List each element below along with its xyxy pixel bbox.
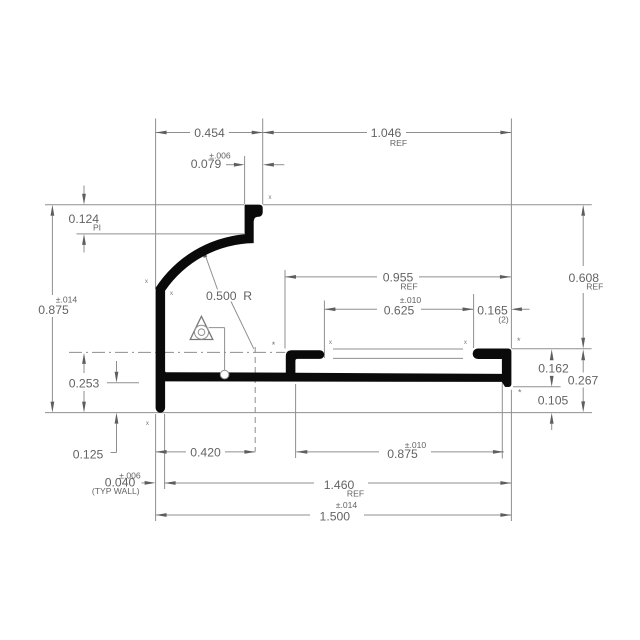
base bottom extension line left — [107, 382, 139, 384]
dimension 0.608 REF right — [582, 216, 584, 266]
bottom plane long extension line — [45, 412, 592, 414]
extension line profile right edge upper — [510, 119, 512, 349]
dimension 0.625 — [323, 301, 325, 359]
dimension 0.955 REF — [284, 270, 286, 349]
svg-text:REF: REF — [400, 282, 417, 292]
svg-text:x: x — [464, 339, 468, 346]
lower extension lines — [155, 414, 157, 521]
top surface extension line left — [45, 204, 244, 206]
dimension 0.267 — [582, 360, 584, 372]
svg-text:*: * — [517, 336, 521, 346]
dimension 0.875 bottom — [296, 451, 379, 453]
svg-text:0.420: 0.420 — [190, 446, 221, 460]
svg-text:PI: PI — [93, 223, 101, 233]
dimension 0.875 left — [51, 216, 53, 295]
dimension 1.460 REF — [165, 482, 314, 484]
datum leader — [209, 327, 225, 329]
dimension 0.420 — [156, 451, 186, 453]
svg-text:0.105: 0.105 — [538, 394, 569, 408]
svg-text:x: x — [170, 290, 174, 297]
dimension 0.125 — [116, 361, 118, 372]
centerline dash-dot — [69, 351, 285, 353]
svg-text:0.079: 0.079 — [191, 157, 222, 171]
svg-text:0.125: 0.125 — [73, 448, 104, 462]
datum triangle symbol — [190, 316, 213, 339]
foot-bottom reference line right — [513, 386, 561, 388]
svg-text:0.454: 0.454 — [194, 126, 225, 140]
hook-top reference line right — [511, 348, 591, 350]
top surface extension line right — [263, 204, 592, 206]
top extension line at knob right edge — [262, 119, 264, 205]
svg-text:REF: REF — [586, 282, 603, 292]
svg-text:REF: REF — [347, 489, 364, 499]
svg-text:±.014: ±.014 — [336, 500, 358, 510]
svg-text:0.875: 0.875 — [387, 447, 418, 461]
svg-text:1.500: 1.500 — [320, 510, 351, 524]
radius label 0.500 R with leaders — [205, 255, 218, 290]
top extension line at profile left edge — [155, 119, 157, 290]
thin ledge line upper (between step and hook) — [333, 348, 463, 350]
svg-text:x: x — [268, 194, 272, 201]
dimension 1.046 REF line — [263, 132, 367, 134]
dimension 0.454 line — [156, 132, 190, 134]
dimension 0.165 (2) — [522, 308, 530, 310]
svg-text:x: x — [146, 420, 150, 427]
thin ledge line lower (between step and hook) — [333, 357, 463, 359]
vertical dashed line through radius center — [254, 347, 256, 451]
extension line stub left wall — [244, 156, 246, 204]
svg-text:0.625: 0.625 — [384, 304, 415, 318]
svg-text:0.267: 0.267 — [568, 374, 599, 388]
svg-text:0.500 R: 0.500 R — [206, 289, 252, 303]
0.124 reference line (flat top of curve) — [77, 233, 245, 235]
svg-text:(TYP WALL): (TYP WALL) — [92, 486, 140, 496]
dimension 0.079 — [226, 164, 234, 166]
svg-text:(2): (2) — [498, 315, 509, 325]
svg-text:*: * — [518, 388, 522, 398]
svg-text:REF: REF — [390, 138, 407, 148]
dimension 0.253 — [83, 364, 85, 373]
dimension 1.500 — [156, 514, 310, 516]
dimension 0.040 TYP WALL — [142, 482, 145, 484]
svg-text:0.875: 0.875 — [38, 303, 69, 317]
datum target circle on slab — [220, 370, 229, 379]
svg-text:0.162: 0.162 — [538, 361, 569, 375]
svg-text:0.253: 0.253 — [69, 377, 100, 391]
svg-text:x: x — [329, 339, 333, 346]
dimension 0.162 — [550, 349, 554, 360]
svg-text:*: * — [272, 340, 276, 350]
svg-text:x: x — [145, 278, 149, 285]
extrusion profile cross-section — [156, 205, 512, 413]
dimension 0.124 — [83, 186, 85, 194]
